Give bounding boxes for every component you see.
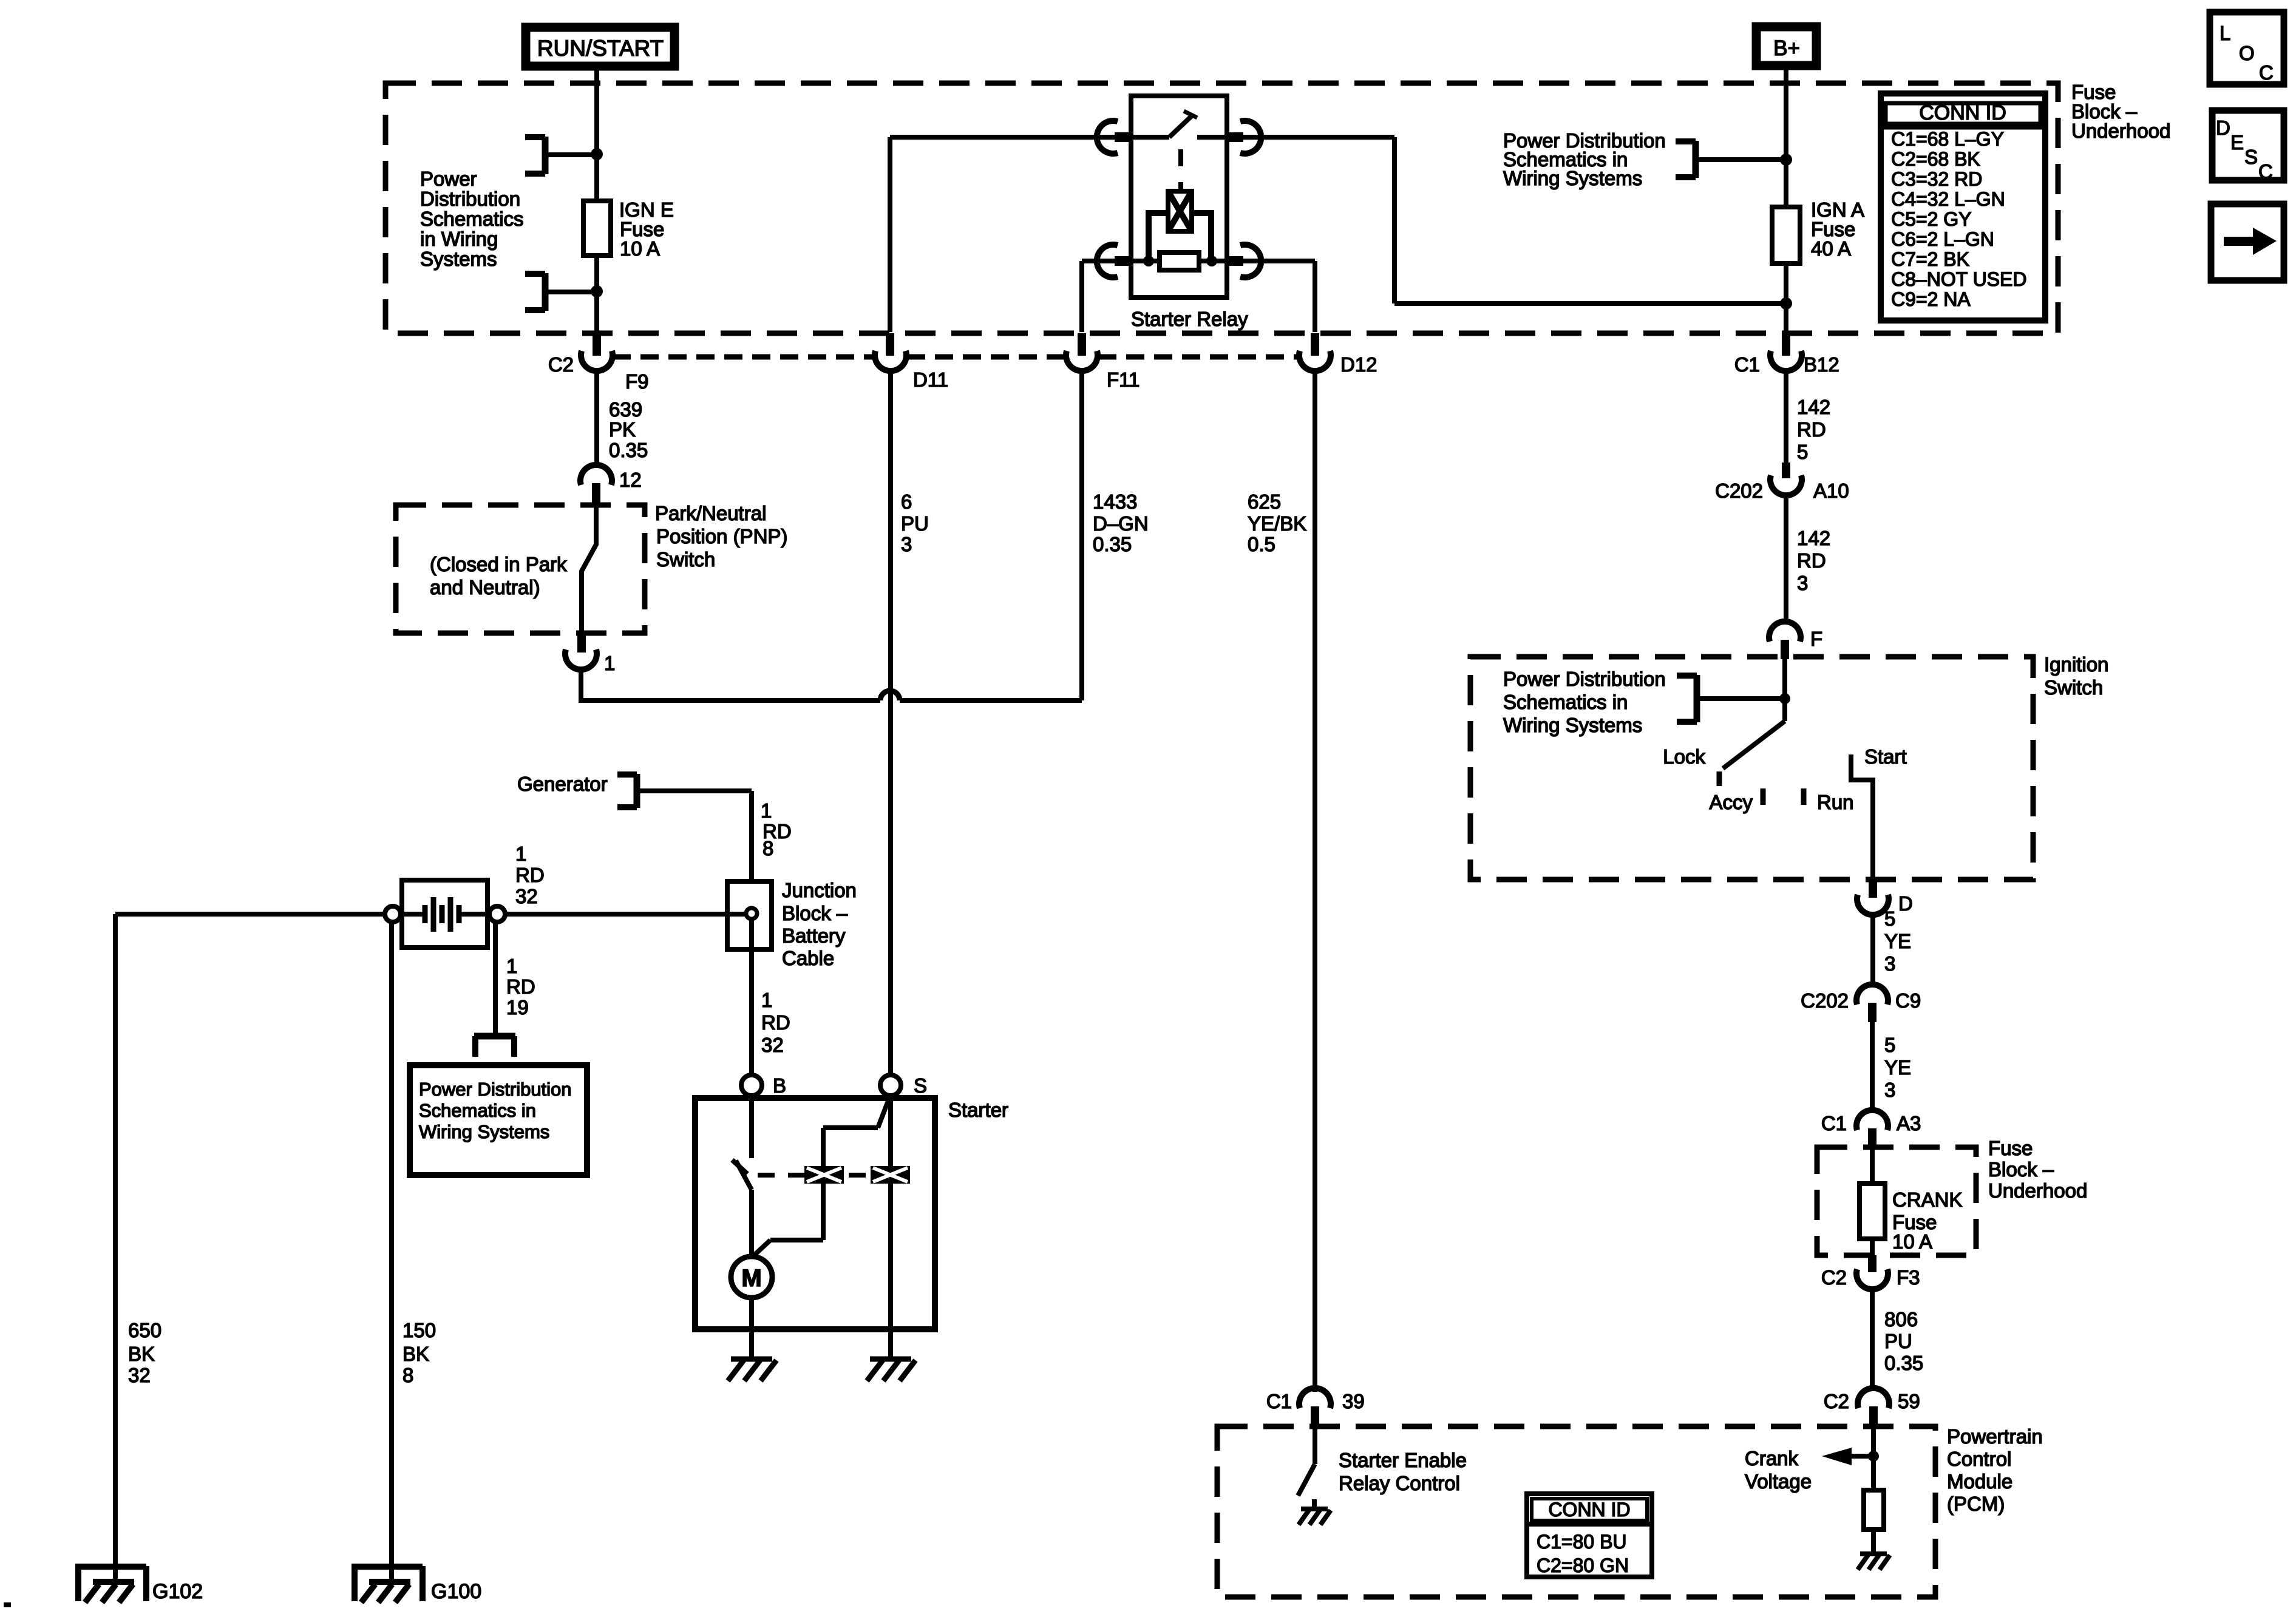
svg-text:G102: G102 — [152, 1580, 203, 1603]
svg-text:0.35: 0.35 — [1884, 1352, 1923, 1374]
svg-text:CONN ID: CONN ID — [1548, 1499, 1630, 1520]
svg-text:Wiring Systems: Wiring Systems — [1503, 714, 1642, 736]
svg-text:and Neutral): and Neutral) — [430, 576, 540, 598]
svg-text:5: 5 — [1797, 441, 1808, 463]
svg-text:CRANK: CRANK — [1892, 1188, 1963, 1211]
svg-text:BK: BK — [128, 1343, 155, 1365]
svg-text:Switch: Switch — [2044, 676, 2103, 699]
svg-text:C1=80 BU: C1=80 BU — [1537, 1531, 1627, 1553]
svg-text:Voltage: Voltage — [1745, 1470, 1812, 1493]
svg-text:Block –: Block – — [1988, 1158, 2054, 1181]
svg-text:Module: Module — [1947, 1470, 2012, 1493]
svg-text:A3: A3 — [1897, 1112, 1921, 1134]
svg-text:B+: B+ — [1773, 36, 1800, 60]
svg-text:B12: B12 — [1804, 353, 1839, 376]
svg-text:RD: RD — [1797, 418, 1826, 441]
svg-text:40 A: 40 A — [1811, 237, 1851, 260]
svg-text:YE: YE — [1884, 1056, 1911, 1079]
svg-text:G100: G100 — [431, 1580, 481, 1603]
svg-text:C3=32 RD: C3=32 RD — [1891, 168, 1982, 190]
svg-text:625: 625 — [1248, 490, 1281, 513]
svg-text:in Wiring: in Wiring — [420, 228, 498, 250]
svg-text:C: C — [2258, 160, 2273, 183]
svg-text:639: 639 — [609, 398, 642, 421]
svg-text:RD: RD — [761, 1011, 790, 1034]
svg-text:C9: C9 — [1895, 989, 1921, 1012]
svg-text:Switch: Switch — [656, 548, 715, 571]
svg-text:F: F — [1810, 628, 1822, 650]
svg-text:YE/BK: YE/BK — [1248, 512, 1306, 535]
svg-text:C8–NOT USED: C8–NOT USED — [1891, 268, 2026, 290]
svg-text:Power Distribution: Power Distribution — [1503, 668, 1666, 690]
svg-text:0.35: 0.35 — [609, 439, 648, 461]
svg-text:Starter Relay: Starter Relay — [1131, 308, 1248, 330]
svg-text:Crank: Crank — [1745, 1447, 1799, 1470]
svg-text:C2=80 GN: C2=80 GN — [1537, 1554, 1629, 1576]
svg-text:1433: 1433 — [1093, 490, 1137, 513]
svg-text:Power: Power — [420, 168, 477, 190]
svg-text:C5=2 GY: C5=2 GY — [1891, 208, 1972, 230]
svg-text:10 A: 10 A — [1892, 1230, 1932, 1253]
svg-text:3: 3 — [901, 533, 912, 555]
svg-text:C1=68 L–GY: C1=68 L–GY — [1891, 128, 2004, 150]
svg-text:C1: C1 — [1821, 1112, 1847, 1134]
svg-text:1: 1 — [761, 799, 772, 822]
svg-text:C4=32 L–GN: C4=32 L–GN — [1891, 188, 2005, 210]
svg-text:Systems: Systems — [420, 248, 497, 270]
svg-text:Schematics in: Schematics in — [1503, 691, 1628, 713]
svg-text:S: S — [914, 1074, 927, 1097]
svg-text:8: 8 — [402, 1364, 413, 1386]
svg-text:3: 3 — [1884, 952, 1895, 975]
svg-text:PU: PU — [1884, 1330, 1912, 1352]
svg-text:Ignition: Ignition — [2044, 653, 2108, 676]
svg-text:(PCM): (PCM) — [1947, 1493, 2005, 1515]
svg-text:0.5: 0.5 — [1248, 533, 1275, 555]
svg-text:32: 32 — [515, 885, 538, 907]
svg-text:Power Distribution: Power Distribution — [419, 1079, 572, 1100]
svg-text:19: 19 — [506, 996, 529, 1019]
svg-text:C202: C202 — [1715, 480, 1763, 502]
svg-text:D–GN: D–GN — [1093, 512, 1149, 535]
svg-text:3: 3 — [1884, 1079, 1895, 1101]
svg-text:Schematics: Schematics — [420, 208, 524, 230]
svg-text:Underhood: Underhood — [2071, 120, 2170, 142]
svg-text:Generator: Generator — [517, 773, 608, 795]
svg-text:Distribution: Distribution — [420, 188, 520, 210]
svg-text:32: 32 — [128, 1364, 151, 1386]
svg-text:1: 1 — [761, 989, 772, 1011]
svg-text:39: 39 — [1342, 1390, 1365, 1412]
svg-text:PU: PU — [901, 512, 929, 535]
svg-text:Junction: Junction — [782, 879, 857, 901]
svg-text:S: S — [2244, 146, 2258, 168]
svg-text:0.35: 0.35 — [1093, 533, 1132, 555]
svg-text:(Closed in Park: (Closed in Park — [430, 553, 567, 575]
svg-text:CONN ID: CONN ID — [1919, 101, 2006, 124]
svg-text:C6=2 L–GN: C6=2 L–GN — [1891, 228, 1994, 250]
svg-text:142: 142 — [1797, 527, 1830, 549]
svg-text:D11: D11 — [913, 368, 948, 391]
svg-text:Powertrain: Powertrain — [1947, 1425, 2043, 1448]
svg-text:Run: Run — [1817, 791, 1854, 813]
svg-text:Battery: Battery — [782, 924, 846, 947]
svg-text:RD: RD — [515, 864, 545, 886]
svg-text:M: M — [741, 1265, 761, 1292]
svg-text:A10: A10 — [1813, 480, 1849, 502]
svg-text:L: L — [2220, 22, 2230, 44]
svg-text:E: E — [2230, 131, 2244, 154]
svg-text:D: D — [1898, 892, 1913, 915]
svg-text:Underhood: Underhood — [1988, 1179, 2087, 1202]
svg-text:C7=2 BK: C7=2 BK — [1891, 248, 1969, 270]
svg-text:Start: Start — [1864, 745, 1907, 768]
svg-text:C2: C2 — [1824, 1390, 1849, 1412]
svg-text:59: 59 — [1898, 1390, 1920, 1412]
svg-text:32: 32 — [761, 1034, 784, 1056]
svg-text:Control: Control — [1947, 1448, 2011, 1470]
svg-text:150: 150 — [402, 1319, 436, 1341]
svg-text:10 A: 10 A — [620, 237, 660, 260]
svg-text:C2: C2 — [1821, 1266, 1847, 1289]
svg-text:PK: PK — [609, 418, 636, 441]
svg-text:806: 806 — [1884, 1308, 1918, 1331]
svg-text:BK: BK — [402, 1343, 429, 1365]
svg-text:D: D — [2216, 117, 2230, 139]
svg-text:C9=2 NA: C9=2 NA — [1891, 288, 1971, 310]
svg-text:Starter: Starter — [948, 1099, 1008, 1121]
svg-text:Position (PNP): Position (PNP) — [656, 525, 787, 547]
svg-text:Starter Enable: Starter Enable — [1339, 1449, 1467, 1471]
svg-text:1: 1 — [515, 842, 526, 865]
svg-text:Fuse: Fuse — [1988, 1137, 2033, 1159]
svg-text:RUN/START: RUN/START — [537, 36, 664, 61]
svg-text:Accy: Accy — [1709, 791, 1753, 813]
svg-text:Wiring Systems: Wiring Systems — [1503, 167, 1642, 189]
svg-text:Block –: Block – — [782, 902, 848, 924]
svg-text:12: 12 — [619, 469, 642, 491]
svg-text:1: 1 — [506, 955, 517, 977]
svg-text:650: 650 — [128, 1319, 161, 1341]
svg-text:Park/Neutral: Park/Neutral — [655, 502, 766, 524]
svg-text:Relay Control: Relay Control — [1339, 1472, 1460, 1494]
svg-text:8: 8 — [763, 837, 773, 859]
svg-text:YE: YE — [1884, 930, 1911, 952]
svg-text:F11: F11 — [1107, 368, 1140, 391]
svg-text:C2: C2 — [548, 353, 574, 376]
svg-text:F9: F9 — [625, 370, 649, 393]
svg-text:Schematics in: Schematics in — [419, 1100, 536, 1121]
svg-text:F3: F3 — [1897, 1266, 1920, 1289]
svg-text:5: 5 — [1884, 907, 1895, 930]
svg-text:3: 3 — [1797, 572, 1808, 594]
svg-text:B: B — [773, 1074, 786, 1097]
svg-text:142: 142 — [1797, 396, 1830, 418]
svg-text:C202: C202 — [1801, 989, 1849, 1012]
svg-text:Lock: Lock — [1663, 745, 1705, 768]
svg-text:RD: RD — [1797, 549, 1826, 572]
svg-text:D12: D12 — [1340, 353, 1377, 376]
svg-text:C1: C1 — [1266, 1390, 1292, 1412]
svg-text:O: O — [2239, 42, 2255, 64]
svg-text:6: 6 — [901, 490, 912, 513]
svg-text:1: 1 — [604, 652, 615, 674]
svg-text:C2=68 BK: C2=68 BK — [1891, 148, 1980, 170]
svg-text:C: C — [2259, 61, 2274, 84]
svg-text:C1: C1 — [1734, 353, 1760, 376]
svg-text:5: 5 — [1884, 1034, 1895, 1056]
svg-text:RD: RD — [506, 975, 535, 998]
svg-text:Cable: Cable — [782, 947, 834, 969]
svg-text:Wiring Systems: Wiring Systems — [419, 1121, 549, 1142]
